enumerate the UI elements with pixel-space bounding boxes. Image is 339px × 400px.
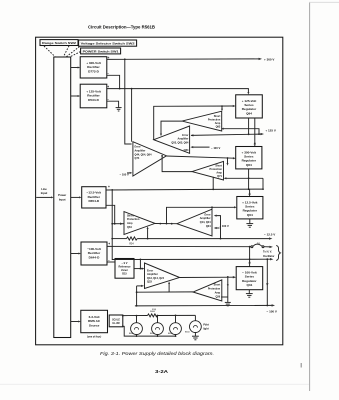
op-amp E: error amplifier Q13 Q14 Q24 Q33 (-100 loop) bbox=[145, 263, 180, 289]
resistor R607 bbox=[148, 314, 158, 317]
svg-text:R607: R607 bbox=[150, 311, 156, 313]
lamp B603 bbox=[168, 315, 181, 335]
svg-text:Amplifier: Amplifier bbox=[147, 273, 158, 276]
page scan edge artifacts bbox=[309, 2, 311, 391]
svg-text:Q44, Q54, Q64: Q44, Q54, Q64 bbox=[135, 153, 153, 156]
svg-text:3-2A: 3-2A bbox=[155, 369, 169, 374]
svg-text:Range Switch SW2: Range Switch SW2 bbox=[42, 41, 77, 45]
svg-text:Q26: Q26 bbox=[215, 295, 220, 298]
svg-text:− 100 V: − 100 V bbox=[267, 309, 277, 313]
rectifier B3: -12.5-Volt Rectifier D654 bbox=[82, 187, 106, 208]
+12.5V series regulator box bbox=[237, 197, 263, 219]
svg-text:Protection: Protection bbox=[208, 288, 221, 291]
wire: B output up and right into +125 series regulator, tap to A bbox=[154, 105, 236, 140]
Voltage Selector Switch box SW2 bbox=[79, 40, 137, 46]
svg-text:Amplifier: Amplifier bbox=[178, 138, 189, 141]
svg-text:Q14, Q24: Q14, Q24 bbox=[200, 221, 211, 224]
ground branch from E output line at F base bbox=[221, 277, 231, 306]
wire: top rail from SCALE ILLUM bbox=[122, 311, 195, 317]
+125 raw rail from B2 plus, into top of +125 series regulator bbox=[107, 85, 250, 95]
op-amp F: short protection amp Q24 (-100 loop) bbox=[193, 280, 222, 301]
wire: line input arrow bbox=[36, 196, 53, 198]
svg-text:To H. V.: To H. V. bbox=[263, 251, 272, 254]
wire: sense feedback into D base bbox=[224, 169, 264, 190]
dashed mechanical links from switches to transformer bbox=[44, 46, 81, 57]
svg-text:Line: Line bbox=[41, 187, 47, 191]
wire: input arrow into E1 bbox=[112, 223, 124, 225]
svg-text:Error: Error bbox=[135, 146, 141, 149]
svg-text:ILLUM: ILLUM bbox=[112, 323, 119, 325]
svg-text:(one of four): (one of four) bbox=[87, 336, 101, 339]
svg-text:R54: R54 bbox=[129, 244, 134, 246]
rectifier B1: +300-Volt Rectifier D772 bbox=[80, 57, 107, 78]
6.3-Volt RMS AC Source box bbox=[81, 310, 108, 338]
wire: right branch down to -100V rail bbox=[266, 259, 268, 306]
wire: B2 minus to ground bbox=[107, 98, 119, 108]
svg-text:+: + bbox=[108, 242, 110, 246]
wire: transformer to +300V rectifier bbox=[71, 67, 81, 69]
svg-text:POWER Switch SW1: POWER Switch SW1 bbox=[83, 50, 120, 54]
wire: E2 output up and right into +12.5 regulator bbox=[167, 206, 237, 223]
wire: sense feedback from -12.5 rail into E2 base bbox=[214, 215, 222, 240]
wire: E output into -100 regulator bbox=[180, 276, 237, 278]
-100V output rail bbox=[135, 304, 277, 313]
+125V series regulator box Q94 bbox=[236, 95, 263, 118]
svg-text:D534-D: D534-D bbox=[88, 98, 99, 102]
op-amp E1: short protection amp Q64 (+12.5 loop) bbox=[124, 212, 155, 235]
svg-text:Error: Error bbox=[147, 269, 153, 272]
-100V series regulator box Q31 bbox=[236, 267, 263, 290]
svg-text:Q71: Q71 bbox=[217, 175, 222, 178]
svg-text:B602: B602 bbox=[150, 333, 154, 335]
Range Switch box SW2 bbox=[40, 40, 78, 46]
svg-text:Q64: Q64 bbox=[127, 226, 132, 229]
svg-text:D644-D: D644-D bbox=[89, 255, 100, 259]
power transformer tall box bbox=[54, 57, 71, 338]
svg-text:− 100 V: − 100 V bbox=[211, 146, 221, 150]
svg-text:Pilot: Pilot bbox=[203, 324, 209, 327]
svg-text:Oscillator: Oscillator bbox=[263, 255, 275, 258]
lamp B601 bbox=[129, 316, 142, 336]
POWER Switch box SW1 bbox=[81, 48, 121, 54]
ground below +12.5 regulator bbox=[246, 219, 253, 227]
svg-text:Q94: Q94 bbox=[246, 111, 252, 115]
svg-text:− 100 V: − 100 V bbox=[120, 173, 130, 177]
wire: bottom rail of lamps bbox=[122, 325, 177, 337]
wire: -100V supply arrow into B base bbox=[190, 146, 220, 150]
svg-text:D654-D: D654-D bbox=[88, 199, 99, 203]
ground below pilot lamp bbox=[192, 333, 199, 340]
svg-text:Short: Short bbox=[127, 214, 134, 217]
svg-text:Source: Source bbox=[89, 323, 100, 327]
svg-text:Q84: Q84 bbox=[184, 149, 189, 152]
left feedback rail down to H.V. line bbox=[111, 190, 273, 261]
svg-text:Q13, Q14, Q24: Q13, Q14, Q24 bbox=[147, 277, 165, 280]
op-amp B: error amplifier Q53 Q63 Q64 Q84 (+125 loop) bbox=[154, 126, 190, 153]
svg-text:Amp: Amp bbox=[215, 291, 221, 294]
svg-text:Q53, Q63, Q64: Q53, Q63, Q64 bbox=[171, 141, 189, 144]
wire: B4 minus into reference zener bbox=[107, 259, 115, 263]
wire: F output left, down to -100V rail bbox=[136, 281, 193, 306]
svg-text:Amplifier: Amplifier bbox=[200, 217, 211, 220]
svg-text:Input: Input bbox=[59, 197, 66, 201]
wire: +300 raw down-left feed to error amp C bbox=[125, 59, 132, 144]
wire: zener output into error amp E bbox=[134, 259, 145, 270]
svg-text:Amp: Amp bbox=[127, 222, 133, 225]
svg-text:D772-D: D772-D bbox=[88, 69, 99, 73]
wire: +300 regulator top up into +125 regulator bottom bbox=[254, 118, 256, 147]
op-amp D: short protection amp Q71 (+300 loop) bbox=[192, 161, 224, 180]
svg-text:Error: Error bbox=[204, 213, 210, 216]
svg-text:Q31: Q31 bbox=[246, 283, 252, 287]
svg-text:B603: B603 bbox=[168, 333, 172, 335]
wire: sense from +125V rail up into A base bbox=[221, 128, 259, 135]
svg-text:Short: Short bbox=[214, 284, 221, 287]
wire: A output left and down into B bbox=[160, 121, 182, 136]
wire: B1 minus down to +125 raw rail bbox=[107, 71, 121, 89]
rectifier B2: +125-Volt Rectifier D534 bbox=[80, 84, 107, 108]
node: junction dots between E1 and E2 bbox=[155, 223, 177, 225]
raw -12.5 rail from B3 plus across to +12.5 regulator top bbox=[106, 177, 263, 197]
wire: transformer to -100V rectifier bbox=[71, 253, 81, 255]
wire: transformer to 6.3V source bbox=[71, 321, 81, 323]
SCALE ILLUM control box bbox=[109, 315, 123, 327]
svg-text:B604: B604 bbox=[185, 332, 189, 334]
svg-text:− 12.5 V: − 12.5 V bbox=[264, 233, 275, 237]
svg-text:Q93: Q93 bbox=[216, 125, 221, 128]
svg-text:+: + bbox=[108, 185, 110, 189]
svg-text:Circuit Description—Type R561B: Circuit Description—Type R561B bbox=[88, 24, 155, 29]
wire: D output left up to C output line bbox=[162, 156, 192, 172]
svg-text:Fig. 3-1. Power Supply detail: Fig. 3-1. Power Supply detailed block di… bbox=[100, 351, 214, 356]
wire: B3 minus down to +12.5 loop input bbox=[106, 203, 116, 224]
ground below -100 regulator bbox=[246, 290, 253, 298]
op-amp A: short protection amp Q93 (+125 loop) bbox=[182, 111, 222, 131]
wire: -100V arrow into E2 base bbox=[214, 224, 229, 229]
svg-text:Protection: Protection bbox=[127, 218, 140, 221]
svg-text:Amplifier: Amplifier bbox=[135, 150, 146, 153]
+125V output rail with arrow into B base bbox=[191, 128, 276, 136]
outer border frame of diagram bbox=[36, 37, 283, 345]
+300V series regulator box Q84 bbox=[236, 147, 262, 169]
wire: +125 regulator bottom to output rail bbox=[248, 118, 250, 134]
wire: C output into +300 regulator left bbox=[161, 155, 235, 166]
wire: +125 raw down feed to error amp C base top bbox=[131, 89, 133, 142]
op-amp E2: error amplifier Q14 Q24 Q34 (+12.5 loop) bbox=[177, 209, 212, 236]
svg-text:Power: Power bbox=[58, 193, 66, 197]
svg-text:light: light bbox=[203, 327, 208, 330]
rectifier B4: -100-Volt Rectifier D644 bbox=[81, 242, 107, 265]
node: To H.V. Oscillator brace bbox=[263, 245, 280, 260]
ground below +125V rectifier bbox=[116, 108, 122, 111]
svg-text:Q74: Q74 bbox=[135, 157, 140, 160]
reference zener box D15 bbox=[115, 259, 134, 279]
svg-text:Q33: Q33 bbox=[147, 281, 152, 284]
svg-text:Q64: Q64 bbox=[247, 213, 253, 217]
svg-text:Voltage Selector Switch SW2: Voltage Selector Switch SW2 bbox=[81, 42, 136, 46]
svg-text:SCALE: SCALE bbox=[112, 318, 120, 321]
svg-text:−: − bbox=[107, 71, 109, 75]
svg-text:Q34: Q34 bbox=[206, 225, 211, 228]
-12.5V output rail with series resistor R54 bbox=[112, 226, 275, 245]
wire: transformer to -12.5V rectifier bbox=[71, 196, 82, 198]
+300V top rail from B1 plus output bbox=[107, 56, 275, 61]
fuse F4 bbox=[251, 246, 253, 248]
svg-text:+ 125 V: + 125 V bbox=[265, 128, 275, 132]
wire: -100V arrow into C base bottom bbox=[120, 172, 133, 177]
svg-text:Q84: Q84 bbox=[246, 163, 252, 167]
svg-text:B601: B601 bbox=[129, 333, 133, 335]
wire: down to -100 regulator top bbox=[248, 247, 250, 267]
op-amp C: error amplifier Q44 Q54 Q64 Q74 (+300 loop) bbox=[133, 142, 167, 176]
lamp B602 bbox=[150, 316, 163, 336]
svg-text:Input: Input bbox=[41, 191, 48, 195]
node: line input label bbox=[41, 187, 48, 195]
svg-text:D15: D15 bbox=[122, 273, 127, 276]
svg-text:+ 300 V: + 300 V bbox=[264, 57, 274, 61]
wire: transformer to +125V rectifier bbox=[71, 95, 81, 97]
svg-text:− 100 V: − 100 V bbox=[220, 224, 230, 228]
svg-text:Error: Error bbox=[182, 134, 188, 137]
pilot lamp B604 bbox=[185, 315, 209, 333]
fuse line from B4 plus to H.V. oscillator bbox=[107, 242, 273, 248]
